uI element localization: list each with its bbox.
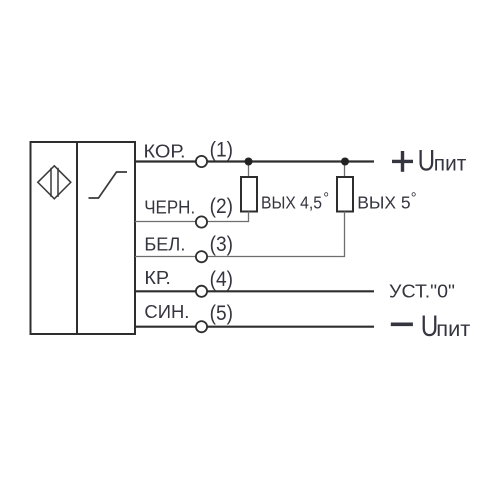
wire 5 СИН to -Uпит: [135, 326, 374, 328]
svg-text:(4): (4): [210, 268, 233, 291]
svg-text:(3): (3): [210, 233, 233, 256]
wire 3 БЕЛ: [135, 256, 345, 258]
pin circle (2): [196, 216, 207, 227]
svg-text:ВЫХ 5: ВЫХ 5: [357, 192, 411, 212]
svg-text:БЕЛ.: БЕЛ.: [144, 235, 185, 255]
resistor R2 ВЫХ 5: [337, 177, 353, 212]
sensor compartment divider: [76, 142, 78, 334]
svg-text:(5): (5): [210, 302, 233, 325]
sensor U1 body: [31, 142, 136, 334]
minus sign of -Uпит: [391, 322, 413, 326]
wire 1 КОР to +Uпит: [135, 160, 374, 162]
junction dot at R2: [341, 158, 349, 166]
plus sign of +Uпит: [392, 151, 413, 172]
sensing element diamond symbol: [38, 166, 71, 199]
svg-text:пит: пит: [436, 318, 470, 341]
pin circle (4): [196, 286, 207, 297]
svg-text:СИН.: СИН.: [144, 302, 189, 322]
resistor R1 top stub: [248, 162, 250, 178]
resistor R1 ВЫХ 4,5: [241, 177, 257, 212]
pin circle (3): [196, 251, 207, 262]
svg-text:°: °: [323, 191, 329, 207]
svg-text:пит: пит: [434, 152, 467, 175]
diamond inner line right: [57, 168, 59, 197]
svg-text:ЧЕРН.: ЧЕРН.: [144, 198, 195, 218]
junction dot at R1: [245, 158, 253, 166]
diamond inner line left: [50, 168, 52, 197]
svg-text:КР.: КР.: [144, 268, 171, 288]
svg-text:(1): (1): [210, 139, 233, 162]
wire 4 КР to УСТ.0: [135, 290, 374, 292]
switching characteristic symbol: [89, 172, 128, 198]
svg-text:(2): (2): [210, 195, 233, 218]
wire 2 ЧЕРН: [135, 221, 249, 223]
pin circle (1): [196, 156, 207, 167]
svg-text:ВЫХ 4,5: ВЫХ 4,5: [261, 192, 322, 212]
resistor R2 top stub: [344, 162, 346, 178]
resistor R1 bottom stub: [248, 212, 250, 223]
svg-text:U: U: [418, 144, 436, 177]
svg-text:°: °: [411, 191, 417, 207]
svg-text:КОР.: КОР.: [144, 141, 186, 161]
svg-text:УСТ."0": УСТ."0": [389, 282, 455, 302]
pin circle (5): [196, 321, 207, 332]
resistor R2 bottom stub: [344, 212, 346, 258]
